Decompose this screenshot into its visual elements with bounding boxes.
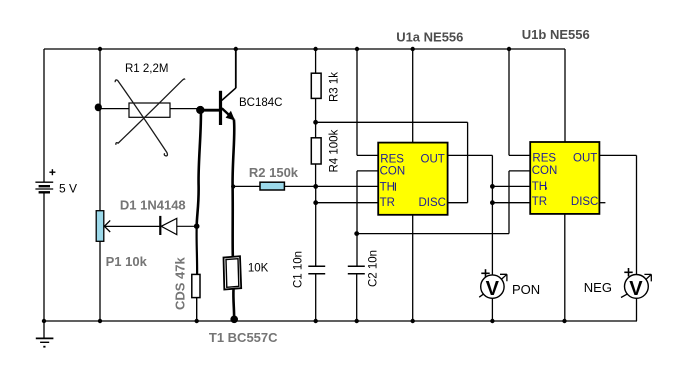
node blob R2 left junction (231, 184, 235, 188)
cross-out stroke 1 over R1 (115, 80, 167, 156)
node dot R3 top rail (313, 47, 317, 51)
op-amp U1a NE556 body (378, 143, 447, 215)
svg-text:OUT: OUT (421, 153, 445, 165)
svg-text:DISC: DISC (419, 197, 446, 209)
svg-text:V: V (629, 278, 643, 300)
wire U1a RES branch to rail (357, 49, 378, 155)
resistor 10K hand-drawn (224, 256, 242, 289)
node dot diode junction (194, 223, 200, 229)
node dot R3-R4 junction (313, 120, 318, 125)
pin tick after TH U1b (545, 187, 547, 189)
node dot collector at rail (234, 47, 238, 51)
svg-text:TH: TH (380, 182, 395, 194)
wire U1b top power (564, 49, 566, 142)
node dot U1b TH (490, 184, 495, 189)
wire U1b DISC stub (599, 202, 605, 204)
svg-text:U1a NE556: U1a NE556 (396, 29, 463, 44)
wire U1a OUT to U1b TH/TR (448, 155, 493, 275)
node dot U1b ground (562, 319, 566, 323)
svg-text:T1 BC557C: T1 BC557C (209, 330, 278, 345)
node dot C1 bottom (314, 319, 318, 323)
svg-text:V: V (486, 278, 500, 300)
node dot TH line (313, 184, 318, 189)
node dot RES rail (355, 47, 359, 51)
svg-text:BC184C: BC184C (239, 97, 282, 109)
svg-text:CON: CON (380, 166, 406, 178)
svg-text:R1 2,2M: R1 2,2M (125, 63, 168, 75)
node dot U1a power rail (411, 47, 415, 51)
node dot CDS bottom (195, 319, 199, 323)
wire thick base-to-diode vertical (197, 106, 201, 226)
svg-text:C1 10n: C1 10n (293, 251, 305, 288)
wire thick 10K to rail (232, 289, 235, 318)
svg-text:CDS 47k: CDS 47k (173, 256, 188, 310)
diode D1 1N4148 (104, 216, 194, 235)
cross-out stroke 2 over R1 (116, 79, 185, 145)
wire U1a bottom to ground rail (412, 215, 414, 321)
wire P1 branch vertical (99, 49, 101, 211)
node dot ground-left (42, 319, 46, 323)
node dot U1b RES rail (507, 47, 511, 51)
svg-text:TR: TR (380, 197, 395, 209)
ground (36, 321, 54, 348)
op-amp U1b NE556 body (530, 142, 599, 214)
svg-text:D1 1N4148: D1 1N4148 (120, 197, 186, 212)
wire TR line to chip (316, 202, 379, 204)
resistor R2 150k (233, 182, 378, 190)
node blob R1 left junction (95, 104, 102, 112)
node dot C2 bottom (355, 319, 359, 323)
wire PON meter to ground rail (491, 298, 493, 321)
wire NEG meter to ground rail corner (636, 298, 638, 321)
wire R3R4 junction to DISC column (316, 121, 468, 123)
svg-text:U1b NE556: U1b NE556 (522, 27, 590, 42)
svg-text:TH: TH (532, 181, 547, 193)
svg-text:NEG: NEG (584, 280, 612, 295)
svg-text:R4 100k: R4 100k (328, 129, 340, 172)
pin tick after TH U1a (394, 183, 396, 191)
svg-text:R2 150k: R2 150k (249, 165, 299, 180)
wire U1a CON branch (357, 171, 378, 266)
wire TH column down to C1 (315, 186, 317, 266)
wire battery to bottom rail (43, 193, 45, 322)
wire U1b TH stub (492, 185, 530, 187)
node dot P1 bottom (98, 319, 102, 323)
wire thick diode junction to CDS (195, 226, 198, 274)
svg-text:RES: RES (532, 153, 556, 165)
resistor R4 100k (311, 122, 321, 186)
wire U1b RES branch to rail (509, 49, 530, 155)
resistor R1 (100, 103, 198, 117)
wire P1 to bottom rail (99, 241, 101, 321)
wire CON link to U1b (357, 171, 531, 234)
battery BT1 5V (35, 169, 55, 192)
svg-text:DISC: DISC (571, 196, 598, 208)
node dot U1b TR (490, 200, 495, 205)
resistor R3 1k (311, 49, 321, 122)
svg-text:OUT: OUT (573, 153, 597, 165)
wire left vertical to battery (43, 49, 45, 182)
svg-text:PON: PON (512, 282, 540, 297)
wire U1b TR stub (492, 202, 530, 204)
voltmeter NEG (621, 268, 651, 300)
node dot CON link (354, 231, 359, 236)
node dot U1a ground (411, 319, 415, 323)
wire top supply rail (44, 48, 565, 50)
capacitor C2 10n (348, 266, 365, 321)
node blob T1 at rail (230, 316, 238, 324)
wire U1a top power (412, 49, 414, 143)
wire U1b OUT to NEG meter (599, 155, 636, 274)
svg-text:P1 10k: P1 10k (106, 254, 148, 269)
node dot TR line (313, 200, 318, 205)
wire collector to top rail (235, 49, 237, 88)
wire U1a DISC up to R3R4 line (448, 122, 468, 202)
node dot PON ground (490, 319, 494, 323)
svg-text:RES: RES (380, 153, 404, 165)
svg-text:5 V: 5 V (59, 181, 77, 195)
svg-text:C2 10n: C2 10n (368, 250, 380, 287)
svg-text:CON: CON (532, 165, 558, 177)
photoresistor CDS 47k (192, 274, 200, 321)
node blob transistor base junction (196, 106, 204, 114)
wire thick emitter down to 10K (233, 120, 235, 257)
node dot top rail / P1 branch (98, 47, 102, 51)
wire U1b bottom to ground (564, 214, 566, 321)
capacitor C1 10n (308, 266, 325, 321)
svg-text:R3 1k: R3 1k (328, 72, 340, 102)
potentiometer P1 10k (96, 211, 104, 242)
svg-text:10K: 10K (248, 263, 269, 275)
transistor Q1 BC184C (197, 88, 236, 125)
voltmeter PON (479, 269, 507, 300)
wire bottom ground rail (44, 320, 637, 322)
svg-text:TR: TR (532, 196, 547, 208)
